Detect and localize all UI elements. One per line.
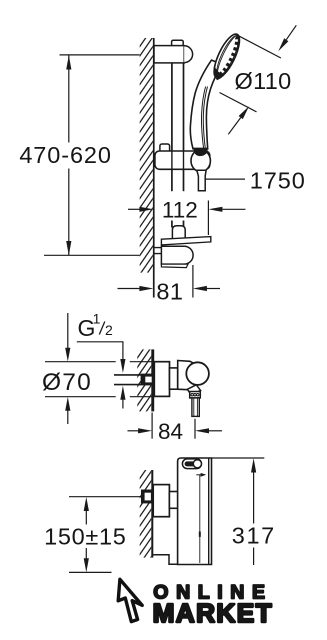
body front inner line bbox=[208, 458, 210, 565]
svg-text:317: 317 bbox=[232, 523, 276, 549]
wall socket fitting outer bbox=[141, 374, 153, 386]
mixer neck bbox=[170, 368, 178, 389]
bottom reference line bbox=[44, 254, 140, 256]
logo mouse cursor bbox=[118, 579, 142, 621]
svg-text:Ø70: Ø70 bbox=[42, 369, 92, 396]
dark crescent at head bottom bbox=[214, 66, 225, 80]
bottom bracket body bbox=[161, 246, 193, 264]
svg-text:MARKET: MARKET bbox=[153, 598, 273, 628]
spray nozzle scalloped ring bbox=[218, 37, 238, 76]
top bracket body bbox=[154, 46, 184, 63]
dimension 150 arrow down bbox=[85, 548, 87, 560]
wall socket fitting outer bbox=[141, 490, 153, 504]
dimension 317 lower line bbox=[253, 548, 255, 566]
head left inner highlight arcs bbox=[217, 35, 237, 75]
thermostat neck bbox=[169, 492, 178, 509]
escutcheon flange bbox=[154, 362, 169, 397]
dimension 112 left arrow bbox=[128, 208, 141, 210]
mixer handle knob circle bbox=[186, 362, 209, 385]
rail middle segment bbox=[171, 170, 173, 191]
mixer hose stub bbox=[192, 398, 199, 417]
bottom bracket lip wedge bbox=[161, 264, 188, 268]
hand shower handle bbox=[190, 60, 222, 149]
dimension 84 right arrow bbox=[195, 428, 209, 433]
wall socket fitting inner bbox=[145, 377, 151, 383]
rail bottom end cap bbox=[172, 226, 185, 240]
top bracket end cap bbox=[184, 46, 192, 63]
escutcheon flange bbox=[153, 485, 169, 517]
hose leader line bbox=[206, 178, 245, 180]
dimension 81 right extension line bbox=[192, 265, 194, 298]
middle wall face thick line bbox=[151, 349, 154, 411]
diameter 110 upper extension line bbox=[237, 35, 281, 58]
diameter 110 lower extension line bbox=[220, 93, 257, 112]
slider main body bbox=[155, 151, 210, 169]
diameter 110 lower arrow bbox=[228, 118, 240, 135]
handle pill top bbox=[182, 459, 201, 469]
svg-text:1: 1 bbox=[93, 311, 101, 327]
dimension 150 arrow up bbox=[84, 497, 89, 511]
G 1/2 leader underline bbox=[77, 341, 124, 343]
dimension 81 right arrow bbox=[193, 286, 207, 291]
diameter 110 upper arrow bbox=[286, 25, 296, 39]
dimension 112 right extension line bbox=[207, 201, 209, 236]
dimension 81 left arrow bbox=[118, 288, 142, 290]
dimension 112 right arrow bbox=[208, 207, 222, 212]
rail upper segment bbox=[171, 63, 173, 151]
diameter 70 top extension line bbox=[45, 361, 116, 363]
bottom bracket wall stem bbox=[155, 248, 162, 254]
diameter 70 top arrow bbox=[67, 313, 69, 349]
rail lower segment bbox=[171, 221, 173, 228]
outlet elbow bbox=[187, 385, 200, 395]
soap dish tray plate bbox=[161, 237, 210, 245]
small inner arrow bbox=[196, 474, 201, 476]
slider knob bbox=[160, 144, 170, 152]
top bracket knob bbox=[172, 40, 184, 46]
handle end dark wedge in slider bbox=[193, 148, 208, 157]
dimension 317 top extension line bbox=[212, 457, 265, 459]
svg-text:150±15: 150±15 bbox=[44, 523, 126, 549]
diameter 70 bottom extension line bbox=[45, 396, 116, 398]
supply pipe / 150 top extension line bbox=[69, 496, 141, 498]
wall socket fitting inner bbox=[145, 493, 151, 501]
svg-text:1750: 1750 bbox=[250, 168, 306, 194]
svg-text:112: 112 bbox=[162, 198, 198, 223]
G 1/2 arrow up at pipe bottom bbox=[120, 386, 125, 400]
handle dark grip bar bbox=[185, 461, 198, 466]
dimension 84 right extension line bbox=[194, 419, 196, 439]
center line tick bbox=[199, 532, 201, 537]
dimension 470-620 arrow down bbox=[66, 241, 71, 255]
hose connector ribbed bbox=[190, 392, 201, 398]
handle inner highlight lines bbox=[201, 87, 205, 149]
handle circle bbox=[193, 460, 201, 468]
supply pipe lines bbox=[114, 374, 141, 376]
bottom wall face line bbox=[151, 470, 153, 558]
head right edge inner line bbox=[217, 35, 238, 77]
dimension 317 arrow up bbox=[251, 458, 256, 472]
G 1/2 leader arrow down bbox=[122, 342, 124, 360]
slider right lobe bbox=[191, 150, 210, 172]
top reference line bbox=[60, 54, 140, 56]
mixer body bbox=[178, 361, 197, 390]
svg-text:84: 84 bbox=[158, 419, 183, 444]
svg-text:2: 2 bbox=[105, 322, 113, 338]
hose cone below slider bbox=[197, 170, 206, 191]
dimension 84 left extension line bbox=[151, 413, 153, 439]
dimension 470-620 line lower bbox=[68, 169, 70, 256]
dimension 470-620 arrow up bbox=[66, 55, 71, 69]
shower head outer shell bbox=[209, 31, 244, 81]
rail sleeve lines through slider bbox=[171, 152, 173, 170]
bottom reference line bbox=[69, 571, 112, 573]
svg-text:470-620: 470-620 bbox=[19, 142, 112, 168]
svg-text:81: 81 bbox=[156, 278, 183, 304]
svg-text:Ø110: Ø110 bbox=[235, 68, 292, 94]
dimension 470-620 line upper bbox=[68, 55, 70, 142]
dimension 84 left arrow bbox=[128, 430, 141, 432]
diameter 70 bottom arrow bbox=[65, 397, 70, 411]
thermostat body plate bbox=[178, 458, 212, 565]
wall face line bbox=[153, 38, 155, 298]
inner center line bbox=[199, 475, 201, 563]
bottom step bracket bbox=[153, 555, 177, 565]
